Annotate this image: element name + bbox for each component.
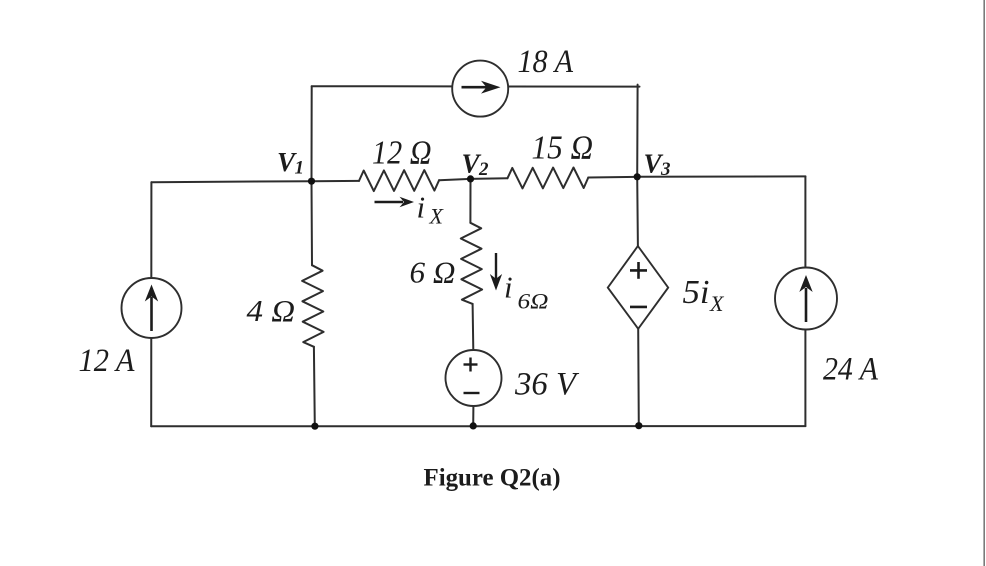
svg-text:4 Ω: 4 Ω bbox=[247, 293, 296, 328]
svg-text:5i: 5i bbox=[683, 274, 710, 311]
node V3 junction dot bbox=[634, 173, 641, 180]
wire: left branch vertical (12A source) bbox=[150, 182, 152, 426]
svg-text:X: X bbox=[709, 291, 725, 316]
svg-text:6 Ω: 6 Ω bbox=[410, 254, 456, 289]
svg-text:3: 3 bbox=[660, 159, 671, 180]
ix current arrow under 12-ohm bbox=[375, 197, 415, 207]
resistor R 15 ohm zigzag bbox=[508, 168, 589, 189]
i6 current arrow beside 6-ohm bbox=[490, 253, 502, 291]
wire: 6-ohm to 36V source bbox=[472, 304, 475, 350]
diamond minus sign bbox=[630, 306, 647, 309]
svg-text:15 Ω: 15 Ω bbox=[532, 129, 594, 166]
resistor R 6 ohm zigzag (vertical) bbox=[461, 223, 482, 304]
current source 12A arrow bbox=[145, 285, 158, 332]
wire: V1 to 4-ohm resistor bbox=[311, 181, 314, 265]
svg-text:12 Ω: 12 Ω bbox=[372, 134, 432, 171]
current source 12A circle bbox=[122, 278, 182, 338]
voltage source 36V circle bbox=[446, 350, 502, 406]
wire: main wire right segment (15-ohm to B corner) bbox=[588, 176, 805, 177]
svg-text:6Ω: 6Ω bbox=[518, 288, 549, 313]
wire: 4-ohm to bottom bbox=[313, 347, 316, 426]
svg-text:18 A: 18 A bbox=[518, 44, 574, 80]
junction dot bottom of 36V bbox=[470, 422, 477, 429]
wire: main wire left segment (A to 12-ohm) bbox=[151, 181, 359, 182]
wire: V1 riser bbox=[311, 86, 313, 181]
svg-text:i: i bbox=[417, 190, 426, 225]
page edge grey line bbox=[983, 0, 985, 566]
wire: V2 to 6-ohm resistor bbox=[469, 179, 471, 223]
resistor R 12 ohm zigzag bbox=[359, 170, 439, 191]
wire: right branch vertical (24A source) bbox=[804, 176, 806, 426]
svg-text:12 A: 12 A bbox=[79, 343, 136, 379]
wire: bottom wire bbox=[151, 425, 805, 427]
diamond plus sign bbox=[630, 262, 647, 279]
svg-text:2: 2 bbox=[478, 159, 489, 180]
svg-text:36 V: 36 V bbox=[514, 367, 580, 403]
junction dot bottom of 4-ohm bbox=[311, 423, 318, 430]
node V2 junction dot bbox=[467, 175, 474, 182]
wire: top wire V1 riser to V3 riser bbox=[312, 85, 640, 87]
wire: V3 riser bbox=[636, 85, 638, 177]
svg-text:Figure Q2(a): Figure Q2(a) bbox=[424, 462, 561, 491]
svg-text:24 A: 24 A bbox=[823, 351, 879, 387]
current source 18A arrow bbox=[462, 81, 501, 94]
wire: 36V source to bottom bbox=[472, 406, 474, 426]
wire: V3 to diamond top bbox=[636, 177, 639, 246]
resistor R 4 ohm zigzag (vertical) bbox=[302, 265, 324, 347]
36V minus sign bbox=[464, 392, 480, 394]
svg-text:i: i bbox=[504, 270, 513, 305]
current source 24A arrow bbox=[799, 275, 812, 322]
wire: diamond bottom to bottom wire bbox=[637, 329, 640, 426]
36V plus sign bbox=[464, 358, 478, 372]
svg-text:1: 1 bbox=[295, 158, 305, 179]
current source 24A circle bbox=[775, 268, 837, 330]
wire: main wire V2 segment bbox=[439, 178, 507, 180]
junction dot bottom of diamond bbox=[635, 422, 642, 429]
node V1 junction dot bbox=[308, 178, 315, 185]
current source 18A circle bbox=[452, 61, 508, 117]
svg-text:X: X bbox=[429, 204, 445, 229]
dependent source diamond 5ix bbox=[608, 246, 668, 329]
